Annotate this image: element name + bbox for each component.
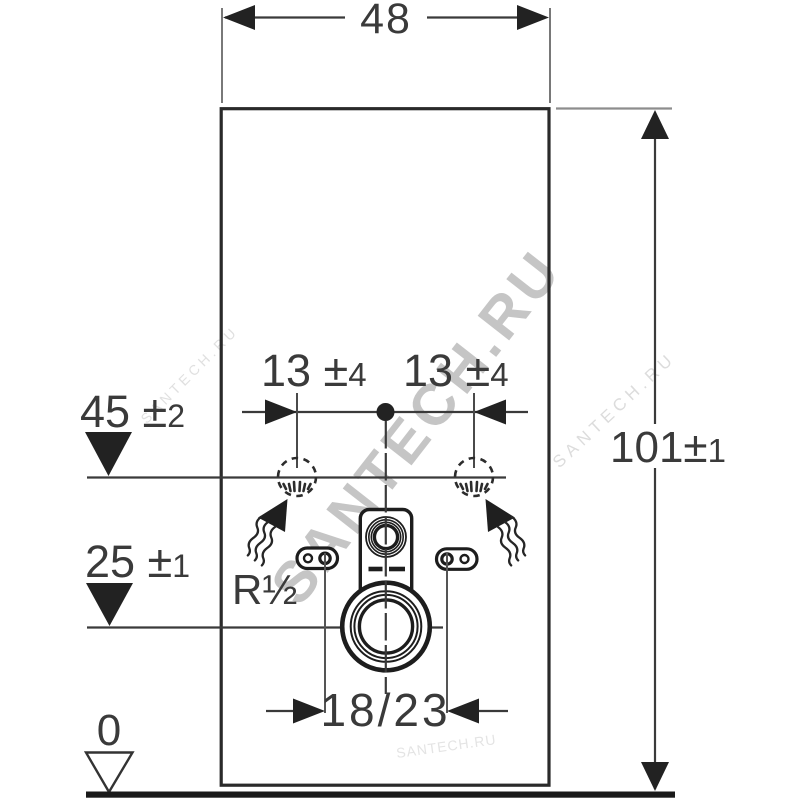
svg-text:R½: R½ — [232, 566, 297, 613]
dim line 18/23 right — [474, 710, 508, 712]
splash icon left — [284, 482, 311, 491]
pill right big hole — [442, 554, 452, 564]
hot water arrow left — [247, 499, 288, 567]
pill left small hole — [304, 554, 312, 562]
extension line top (101) — [556, 107, 672, 109]
pill left big hole — [320, 553, 330, 563]
level line 25 center dash — [386, 626, 397, 628]
level line 25 right segment — [407, 626, 443, 628]
drain circle — [342, 583, 430, 671]
hot water arrow right — [486, 499, 527, 567]
level line 25 left segment — [87, 626, 377, 628]
pill line right — [446, 553, 448, 713]
dim line 101 lower segment — [654, 468, 656, 789]
dashed circle right — [455, 458, 493, 496]
module outline — [221, 109, 549, 786]
bracket break dashes — [369, 567, 383, 572]
arrow 48 left — [223, 5, 255, 30]
extension line hole right — [473, 393, 475, 468]
dim line 101 upper segment — [654, 114, 656, 424]
datum triangle 25 — [86, 583, 133, 626]
extension line right (48) — [549, 8, 551, 103]
datum triangle 0 open — [86, 753, 133, 793]
center line vertical — [385, 421, 387, 694]
arrow 48 right — [517, 5, 549, 30]
arrow 13 right — [474, 400, 506, 425]
dim line 48 left segment — [225, 16, 345, 18]
arrow 101 bottom — [641, 762, 669, 791]
arrow 18/23 left — [293, 699, 325, 724]
pill right — [437, 549, 478, 570]
bracket rings — [366, 517, 406, 557]
pill line left — [324, 553, 326, 713]
flush bracket — [360, 510, 411, 603]
arrow 101 top — [641, 110, 669, 139]
floor bar — [86, 792, 675, 798]
pill right small hole — [461, 555, 469, 563]
dim line 13 — [242, 411, 528, 413]
arrow 13 left — [265, 400, 297, 425]
extension line left (48) — [221, 8, 223, 103]
pill left — [297, 548, 338, 569]
svg-text:48: 48 — [360, 0, 412, 43]
center dot — [377, 403, 395, 421]
svg-text:18/23: 18/23 — [320, 684, 450, 736]
level line 45 — [87, 476, 506, 478]
arrow 18/23 right — [447, 699, 479, 724]
splash icon right — [461, 482, 488, 491]
dashed circle left — [278, 458, 316, 496]
dim line 18/23 left — [266, 710, 298, 712]
extension line hole left — [296, 393, 298, 468]
datum triangle 45 — [85, 432, 132, 476]
dim line 48 right segment — [427, 16, 521, 18]
svg-text:0: 0 — [97, 706, 121, 755]
